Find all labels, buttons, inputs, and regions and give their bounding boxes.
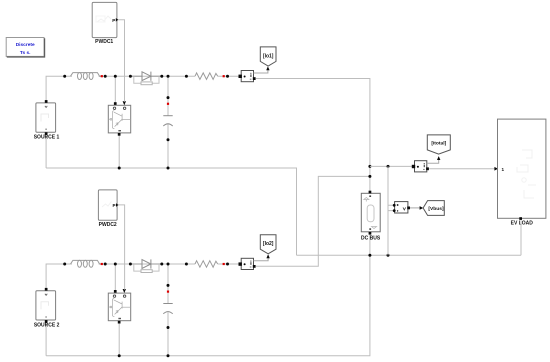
svg-text:P: P <box>113 203 116 208</box>
svg-text:Ts s.: Ts s. <box>20 50 31 56</box>
svg-text:P: P <box>112 18 115 23</box>
svg-text:SOURCE 2: SOURCE 2 <box>34 322 60 328</box>
svg-text:[Io1]: [Io1] <box>263 53 274 59</box>
svg-text:DC BUS: DC BUS <box>361 236 381 242</box>
svg-text:PWDC2: PWDC2 <box>99 222 117 228</box>
svg-text:Discrete: Discrete <box>16 42 35 48</box>
svg-text:[Itotal]: [Itotal] <box>431 141 446 147</box>
svg-text:1: 1 <box>502 167 505 172</box>
svg-text:[Io2]: [Io2] <box>263 241 274 247</box>
svg-text:EV LOAD: EV LOAD <box>511 221 534 227</box>
svg-text:[Vbus]: [Vbus] <box>428 206 444 212</box>
svg-text:SOURCE 1: SOURCE 1 <box>34 135 60 141</box>
svg-text:PWDC1: PWDC1 <box>95 39 113 45</box>
